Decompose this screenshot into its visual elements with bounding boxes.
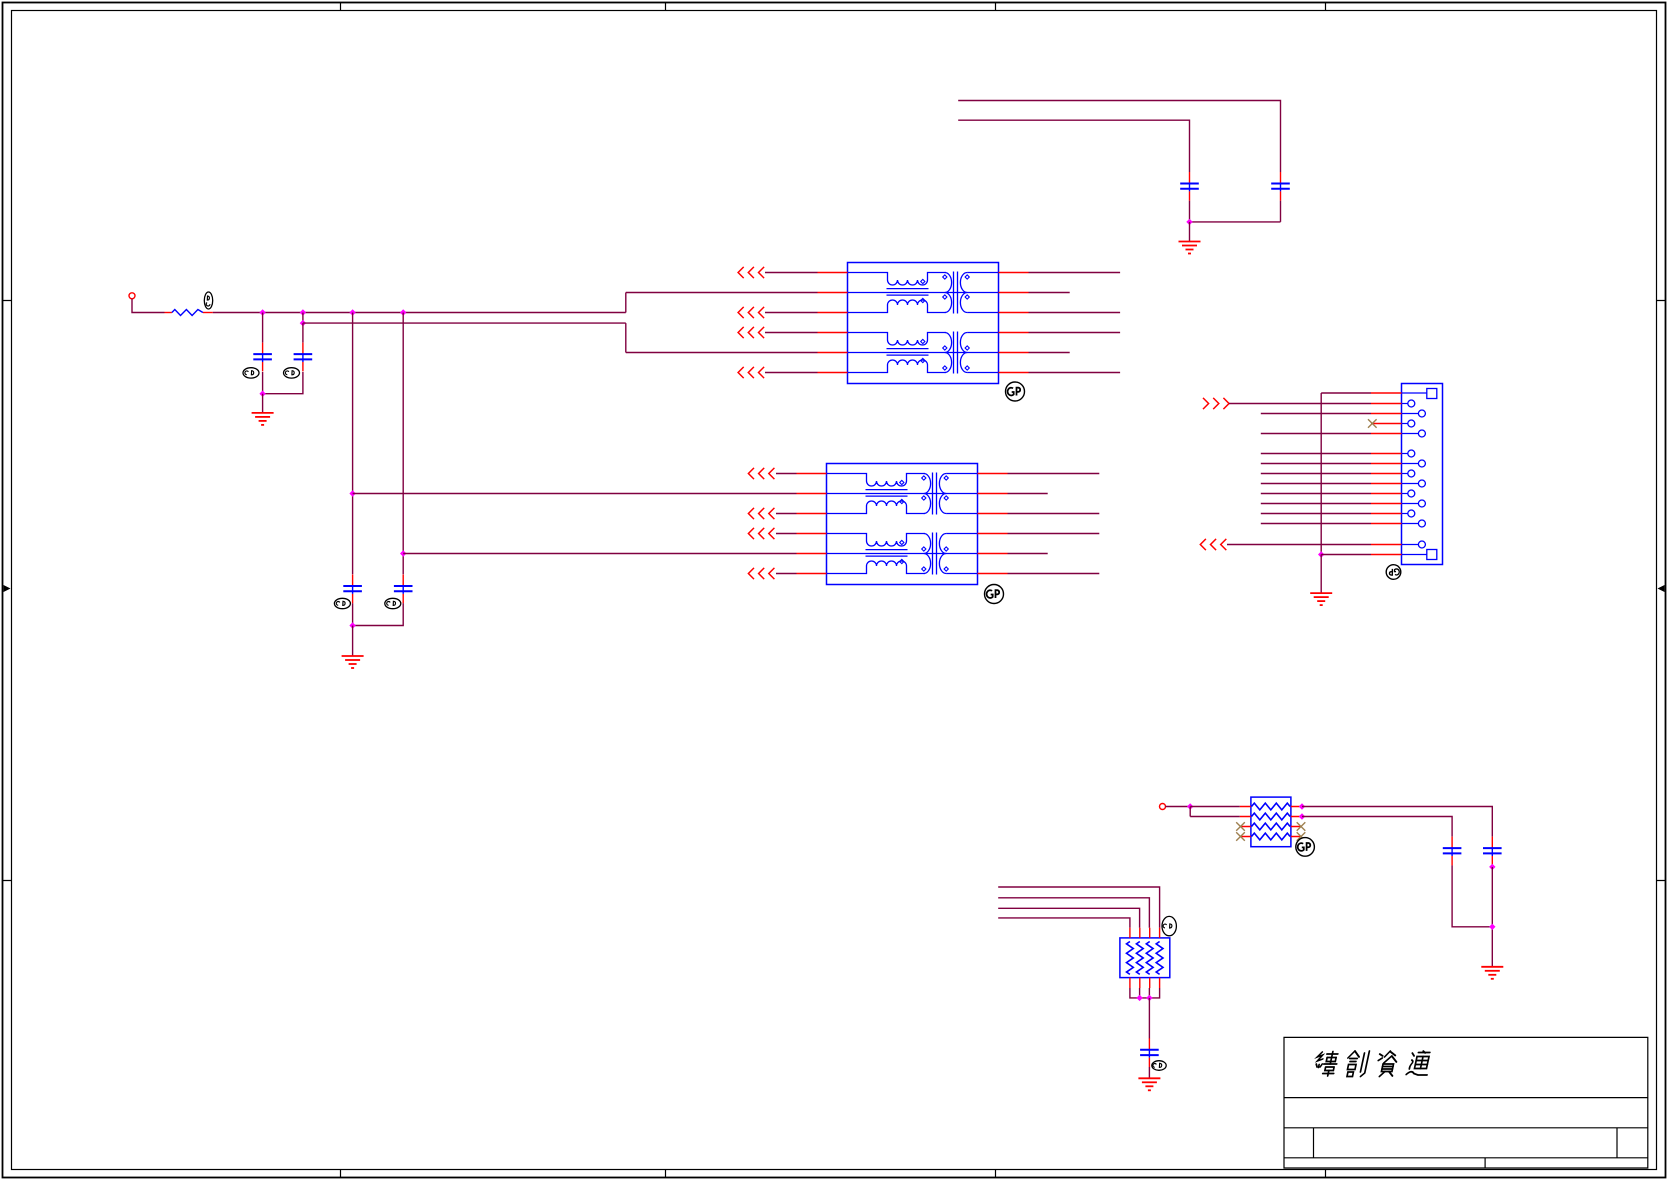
wire (1189, 222, 1191, 242)
capacitor C4 (294, 343, 313, 372)
wire (1008, 533, 1100, 535)
label Cb (1162, 916, 1176, 935)
junction (349, 490, 355, 496)
company name text (1313, 1051, 1432, 1077)
wire (765, 332, 818, 334)
pin 503 (1371, 503, 1402, 505)
wire (1261, 463, 1371, 465)
wire (352, 626, 354, 657)
transformer T2 (797, 464, 1008, 585)
off-page connector (1203, 398, 1229, 409)
label GP (1386, 565, 1401, 580)
off-page connector (738, 307, 764, 318)
off-page connector (748, 508, 774, 519)
junction (349, 309, 355, 315)
wire (1261, 483, 1371, 485)
wire (1190, 806, 1240, 808)
wire (263, 372, 303, 394)
wire (1320, 393, 1322, 555)
capacitor C6 (394, 575, 413, 604)
off-page connector (738, 367, 764, 378)
pin 493 (1371, 493, 1402, 495)
ground (1481, 967, 1503, 979)
wire (998, 908, 1139, 927)
label GP (1296, 838, 1315, 857)
junction (300, 320, 306, 326)
wire (1261, 473, 1371, 475)
junction (259, 391, 265, 397)
wire (776, 473, 797, 475)
pin 403 (1371, 403, 1402, 405)
off-page connector (748, 568, 774, 579)
pin 392.5 (1371, 392, 1402, 394)
label R1 (204, 292, 212, 309)
connector J1 (1371, 384, 1443, 565)
wire (1227, 544, 1371, 546)
pin 483 (1371, 483, 1402, 485)
wire (1008, 473, 1100, 475)
wire (213, 312, 626, 314)
wire (1261, 413, 1371, 415)
wire (1029, 352, 1070, 354)
wire (402, 313, 404, 575)
pin 423 (1371, 423, 1402, 425)
wire (1261, 523, 1371, 525)
transformer T1 (818, 263, 1029, 384)
wire (998, 918, 1130, 928)
wire (1261, 493, 1371, 495)
junction (300, 309, 306, 315)
junction (1489, 924, 1495, 930)
junction (400, 309, 406, 315)
wire (352, 603, 354, 625)
wire (1261, 433, 1371, 435)
wire (1029, 372, 1121, 374)
wire (303, 322, 626, 324)
resistor network RN1 (1240, 797, 1302, 847)
wire (626, 293, 818, 313)
resistor network RN2 (1120, 928, 1170, 988)
no-connect X (1368, 419, 1377, 428)
capacitor C9 (1140, 1038, 1159, 1067)
wire (1321, 554, 1371, 556)
ground (1179, 242, 1201, 254)
wire (1261, 503, 1371, 505)
wire (958, 101, 1280, 173)
wire (1029, 312, 1121, 314)
ground (342, 656, 364, 668)
wire (262, 394, 264, 413)
capacitor C1 (1180, 172, 1199, 201)
wire (765, 272, 818, 274)
terminal (1160, 804, 1166, 810)
resistor R1 (165, 310, 213, 316)
wire (1190, 807, 1240, 817)
wire (1321, 392, 1371, 394)
off-page connector (738, 327, 764, 338)
junction (1187, 803, 1193, 809)
wire (958, 120, 1189, 172)
wire (1261, 453, 1371, 455)
capacitor C7 (1443, 837, 1462, 866)
label C5 (334, 598, 350, 608)
junction (1299, 813, 1305, 819)
wire (262, 372, 264, 394)
wire (1302, 807, 1492, 837)
junction (1318, 551, 1324, 557)
capacitor C5 (343, 575, 362, 604)
ground (1310, 593, 1332, 605)
label GP (1152, 1061, 1166, 1071)
pin 413 (1371, 413, 1402, 415)
junction (1186, 219, 1192, 225)
label GP (985, 585, 1004, 604)
label GP (1006, 382, 1025, 401)
junction (400, 550, 406, 556)
no-connect X (1236, 832, 1245, 841)
capacitor C2 (1271, 172, 1290, 201)
pin 463 (1371, 463, 1402, 465)
wire (302, 313, 304, 324)
wire (302, 323, 304, 342)
wire (132, 299, 165, 313)
off-page connector (1200, 539, 1226, 550)
wire (1491, 867, 1493, 967)
junction (259, 309, 265, 315)
junction (1146, 995, 1152, 1001)
junction (1489, 864, 1495, 870)
wire (998, 898, 1149, 928)
wire (776, 573, 797, 575)
pin 513 (1371, 513, 1402, 515)
wire (1302, 817, 1452, 837)
pin 453 (1371, 453, 1402, 455)
wire (1320, 555, 1322, 594)
wire (1166, 806, 1191, 808)
pin 554 (1371, 554, 1402, 556)
wire (352, 313, 354, 575)
wire (765, 372, 818, 374)
wire (626, 323, 818, 352)
wire (353, 493, 797, 495)
wire (1008, 513, 1100, 515)
pin 523 (1371, 523, 1402, 525)
title block (1284, 1037, 1648, 1168)
no-connect X (1236, 822, 1245, 831)
terminal (129, 293, 135, 299)
wire (776, 533, 797, 535)
wire (765, 312, 818, 314)
wire (1008, 573, 1100, 575)
wire (1008, 493, 1048, 495)
wire (1229, 403, 1371, 405)
pin 433 (1371, 433, 1402, 435)
wire (1029, 332, 1121, 334)
wire (262, 313, 264, 343)
no-connect X (1297, 832, 1306, 841)
ground (252, 413, 274, 425)
off-page connector (738, 267, 764, 278)
off-page connector (748, 468, 774, 479)
wire (776, 513, 797, 515)
junction (1299, 803, 1305, 809)
label C3 (243, 368, 259, 378)
wire (1190, 201, 1281, 222)
wire (1008, 553, 1048, 555)
label C6 (385, 598, 401, 608)
wire (1148, 1067, 1150, 1078)
wire (353, 603, 404, 625)
junction (1136, 995, 1142, 1001)
wire (1452, 865, 1492, 926)
wire (998, 887, 1159, 928)
junction (349, 622, 355, 628)
label C4 (284, 368, 300, 378)
ground (1138, 1078, 1160, 1090)
capacitor C8 (1483, 837, 1502, 866)
pin 473 (1371, 473, 1402, 475)
capacitor C3 (253, 343, 272, 372)
off-page connector (748, 528, 774, 539)
wire (1148, 998, 1150, 1039)
wire (403, 553, 796, 555)
no-connect X (1297, 822, 1306, 831)
wire (1029, 272, 1121, 274)
pin 544 (1371, 544, 1402, 546)
wire (1029, 292, 1070, 294)
wire (1130, 988, 1160, 998)
wire (1261, 513, 1371, 515)
